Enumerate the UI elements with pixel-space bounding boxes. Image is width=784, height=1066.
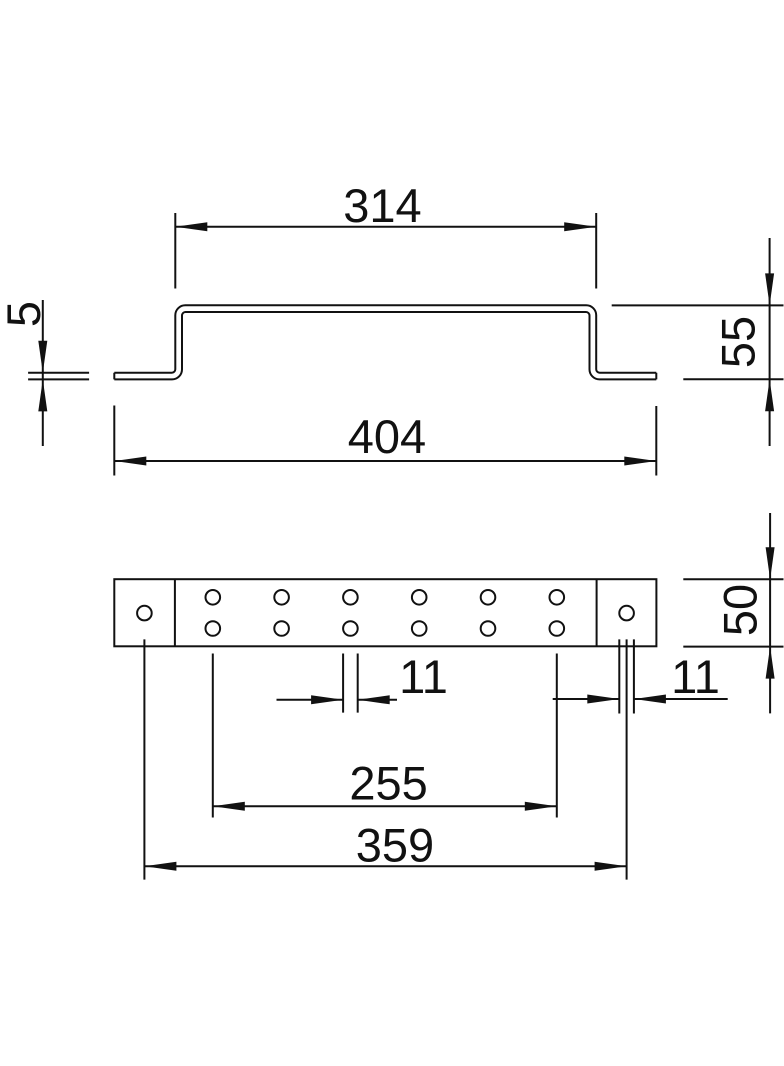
- hole right single: [619, 606, 634, 621]
- dimension 11 middle: extension lines: [343, 654, 358, 713]
- svg-text:55: 55: [712, 316, 765, 368]
- svg-text:314: 314: [343, 179, 421, 232]
- arrowhead 11 right right (left-pointing): [634, 695, 666, 704]
- dimension 404: dimension line: [114, 460, 656, 462]
- plate outline (plan view): [114, 579, 656, 646]
- arrowhead 255 left: [213, 802, 245, 811]
- arrowhead 404 left: [114, 457, 146, 466]
- dimension 55: dimension line: [769, 238, 771, 446]
- dimension 5: extension ticks: [28, 373, 89, 380]
- arrowhead 255 right: [525, 802, 557, 811]
- dimension 314: extension lines: [175, 213, 596, 289]
- arrowhead 50 top (down): [766, 547, 775, 579]
- arrowhead 11 middle left (right-pointing): [311, 695, 343, 704]
- dimension 11 middle: dimension line segments: [277, 699, 398, 701]
- arrowhead 50 bottom (up): [766, 647, 775, 679]
- arrowhead 314 left: [175, 222, 207, 231]
- hat profile outline (side view): [114, 305, 656, 379]
- dimension 50: extension lines: [683, 579, 783, 646]
- arrowhead 11 middle right (left-pointing): [358, 695, 390, 704]
- hole grid column 4: [412, 590, 427, 636]
- hole grid column 3: [343, 590, 358, 636]
- dimension 359: dimension line: [144, 865, 626, 867]
- arrowhead 359 right: [595, 862, 627, 871]
- arrowhead 5 top (down): [38, 341, 47, 373]
- arrowhead 5 bottom (up): [38, 379, 47, 411]
- hole left single: [137, 606, 152, 621]
- dimension 255: dimension line: [213, 805, 557, 807]
- hole grid column 1: [206, 590, 221, 636]
- dimension 314: dimension line: [175, 226, 596, 228]
- arrowhead 359 left: [144, 862, 176, 871]
- dimension 359: extension line right (from right hole center): [626, 639, 628, 879]
- arrowhead 404 right: [624, 457, 656, 466]
- svg-text:5: 5: [0, 301, 50, 327]
- dimension 11 right: dimension line segments: [553, 698, 728, 700]
- svg-text:404: 404: [348, 410, 426, 463]
- plate divider lines: [175, 579, 597, 646]
- svg-text:50: 50: [714, 584, 767, 636]
- svg-text:359: 359: [356, 819, 434, 872]
- dimension 255: extension lines: [213, 654, 557, 818]
- dimension 55: extension lines: [612, 305, 784, 379]
- arrowhead 11 right left (right-pointing): [587, 695, 619, 704]
- dimension 11 right: extension lines: [619, 639, 634, 713]
- dimension 359: extension line left (from left hole center): [143, 639, 145, 879]
- arrowhead 55 top (down): [765, 273, 774, 305]
- dimension 50: dimension line: [769, 513, 771, 713]
- hole grid column 6: [550, 590, 565, 636]
- dimension 404: extension lines: [114, 406, 656, 476]
- hole grid column 2: [274, 590, 289, 636]
- dimension 5: dimension line: [42, 300, 44, 446]
- hole grid column 5: [481, 590, 496, 636]
- svg-text:255: 255: [349, 757, 427, 810]
- arrowhead 55 bottom (up): [765, 379, 774, 411]
- svg-text:11: 11: [671, 650, 720, 703]
- arrowhead 314 right: [564, 222, 596, 231]
- svg-text:11: 11: [399, 650, 448, 703]
